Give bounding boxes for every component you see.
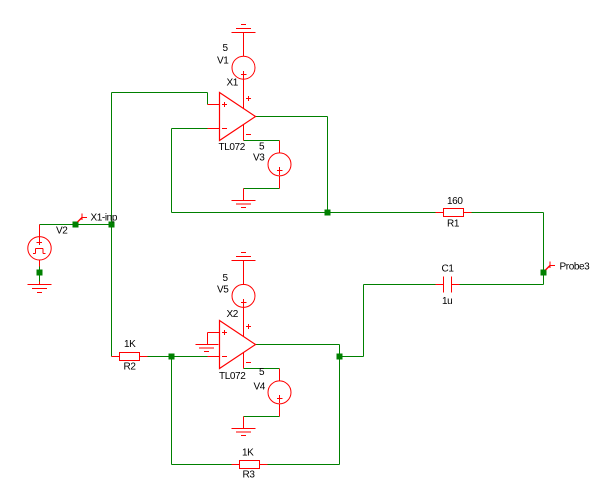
svg-text:5: 5 xyxy=(223,43,229,54)
svg-text:1K: 1K xyxy=(242,448,254,459)
svg-text:X1-inp: X1-inp xyxy=(91,213,118,224)
svg-text:TL072: TL072 xyxy=(219,142,246,153)
svg-text:1u: 1u xyxy=(442,296,452,307)
svg-text:R3: R3 xyxy=(243,470,256,481)
svg-text:R1: R1 xyxy=(447,219,460,230)
svg-text:TL072: TL072 xyxy=(219,371,246,382)
svg-text:V1: V1 xyxy=(217,56,229,67)
svg-text:V2: V2 xyxy=(56,226,68,237)
svg-text:5: 5 xyxy=(259,367,265,378)
svg-text:V3: V3 xyxy=(253,153,265,164)
svg-text:R2: R2 xyxy=(124,362,137,373)
svg-text:1K: 1K xyxy=(124,339,136,350)
svg-text:5: 5 xyxy=(259,142,265,153)
svg-text:V4: V4 xyxy=(254,382,266,393)
svg-text:X1: X1 xyxy=(227,78,239,89)
svg-text:160: 160 xyxy=(447,196,463,207)
svg-text:Probe3: Probe3 xyxy=(560,262,591,273)
svg-text:V5: V5 xyxy=(217,285,229,296)
svg-text:5: 5 xyxy=(223,273,229,284)
svg-text:C1: C1 xyxy=(442,264,455,275)
svg-text:X2: X2 xyxy=(227,309,239,320)
